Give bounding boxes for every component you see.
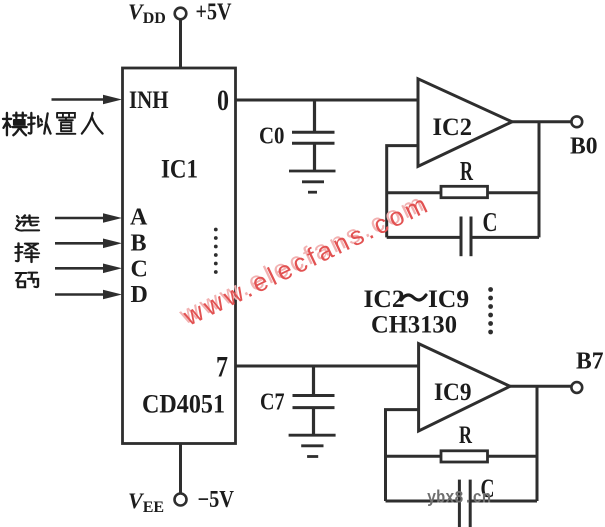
capacitor C of IC9 feedback bbox=[386, 480, 538, 527]
svg-text:CH3130: CH3130 bbox=[371, 312, 457, 339]
svg-text:B: B bbox=[131, 231, 147, 257]
svg-text:+5V: +5V bbox=[196, 0, 233, 26]
output terminal B0 bbox=[571, 116, 582, 127]
svg-text:C: C bbox=[483, 207, 498, 237]
ground below C0 bbox=[289, 171, 336, 192]
svg-text:0: 0 bbox=[217, 84, 229, 117]
svg-text:C0: C0 bbox=[259, 124, 285, 150]
wire VDD to IC1 top bbox=[179, 20, 182, 68]
wire IC9 inverting input to feedback bbox=[386, 410, 419, 501]
svg-text:D: D bbox=[131, 282, 148, 308]
power terminal VDD bbox=[175, 8, 187, 20]
watermark www.elecfans.com bbox=[174, 185, 435, 333]
wire IC1 bottom to VEE bbox=[179, 444, 182, 494]
svg-text:ybx8.cn: ybx8.cn bbox=[427, 489, 491, 509]
wire feedback rail to IC2 output bbox=[538, 122, 541, 238]
wire pin 0 to IC2 input bbox=[236, 99, 419, 102]
op-amp IC2 bbox=[418, 79, 512, 167]
wire IC2 inverting input to feedback bbox=[387, 146, 418, 238]
resistor R of IC2 feedback bbox=[387, 186, 539, 197]
svg-text:R: R bbox=[460, 156, 473, 186]
svg-text:VEE: VEE bbox=[128, 488, 164, 516]
svg-text:CD4051: CD4051 bbox=[142, 390, 225, 419]
svg-text:VDD: VDD bbox=[128, 0, 166, 27]
capacitor C of IC2 feedback bbox=[387, 217, 539, 257]
svg-text:C7: C7 bbox=[260, 390, 285, 416]
label 选择码 (hand-drawn strokes) bbox=[16, 215, 40, 287]
capacitor C7 bbox=[293, 366, 335, 434]
select arrow C bbox=[55, 264, 122, 274]
power terminal VEE bbox=[175, 494, 187, 506]
select arrow A bbox=[55, 213, 122, 223]
output terminal B7 bbox=[571, 382, 582, 393]
select arrow B bbox=[55, 239, 122, 249]
op-amp IC9 bbox=[419, 344, 510, 431]
svg-text:IC2: IC2 bbox=[364, 284, 405, 313]
svg-text:B7: B7 bbox=[576, 349, 604, 375]
svg-text:A: A bbox=[130, 205, 148, 231]
svg-text:IC9: IC9 bbox=[428, 284, 469, 313]
svg-text:R: R bbox=[459, 422, 473, 449]
input arrow INH bbox=[52, 95, 123, 105]
ellipsis dots inside IC1 bbox=[214, 228, 218, 274]
svg-text:INH: INH bbox=[129, 85, 169, 114]
svg-text:IC2: IC2 bbox=[433, 112, 473, 141]
svg-text:IC1: IC1 bbox=[161, 155, 198, 184]
wire pin 7 to IC9 input bbox=[236, 365, 419, 368]
wire IC2 output bbox=[512, 120, 571, 123]
capacitor C0 bbox=[292, 100, 335, 170]
svg-text:7: 7 bbox=[216, 351, 228, 384]
svg-text:−5V: −5V bbox=[198, 487, 235, 513]
svg-text:C: C bbox=[131, 257, 148, 283]
resistor R of IC9 feedback bbox=[386, 451, 538, 462]
svg-text:B0: B0 bbox=[570, 134, 598, 160]
label 模拟置入 (hand-drawn strokes) bbox=[3, 113, 103, 135]
wire IC9 output bbox=[510, 385, 571, 388]
select arrow D bbox=[55, 290, 122, 300]
ellipsis dots IC2 to IC9 bbox=[488, 287, 493, 334]
wire feedback rail to IC9 output bbox=[536, 386, 539, 501]
label IC2~IC9 bbox=[364, 284, 470, 313]
svg-text:IC9: IC9 bbox=[434, 377, 472, 406]
IC1 CD4051 body bbox=[123, 68, 236, 444]
ground below C7 bbox=[289, 435, 336, 456]
